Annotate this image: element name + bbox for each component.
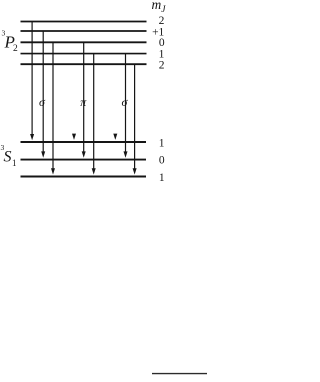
transition arrow sigma 2 to 1 [30,22,34,141]
svg-text:2: 2 [159,60,165,72]
page rule line bottom right [152,373,207,375]
transition arrow sigma 0 to -1 [51,42,55,174]
svg-text:2: 2 [159,15,165,27]
term symbol 3P2 [2,29,19,55]
level 3S1 m=0 line [21,159,147,161]
transition arrow pi 0 to 0 [82,42,86,157]
transition arrow sigma 1 to 0 [41,31,45,158]
level 3S1 m=-1 line [21,176,147,178]
svg-text:0: 0 [159,37,165,49]
transition arrow sigma -1 to 0 [124,54,128,158]
transition arrow sigma -2 to -1 [133,64,137,174]
level 3P2 m=-1 line [21,53,147,55]
svg-text:1: 1 [159,137,165,149]
arrowhead sigma 0 to 1 [113,134,117,140]
svg-text:2: 2 [13,44,18,54]
svg-text:π: π [80,95,87,109]
level 3P2 m=0 line [21,41,147,43]
svg-text:1: 1 [159,48,165,60]
svg-text:1: 1 [159,172,165,184]
arrowhead pi 1 to 1 [72,134,76,140]
term symbol 3S1 [1,143,17,168]
level 3P2 m=+2 line [21,21,147,23]
svg-text:1: 1 [12,158,17,168]
level 3P2 m=-2 line [21,63,147,65]
svg-text:0: 0 [159,154,165,166]
level 3S1 m=+1 line [21,141,147,143]
svg-text:S: S [4,149,12,166]
level 3P2 m=+1 line [21,30,147,32]
transition arrow pi -1 to -1 [92,54,96,175]
